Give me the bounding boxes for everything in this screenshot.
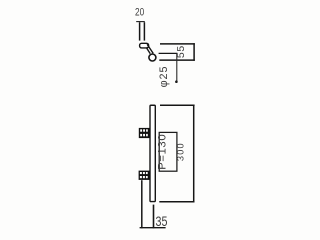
svg-text:35: 35 xyxy=(156,214,168,229)
P=130 box frame xyxy=(159,132,177,171)
ext line door face vertical xyxy=(141,180,143,228)
leg right line xyxy=(143,22,145,40)
svg-text:55: 55 xyxy=(176,45,187,58)
dim line 20 xyxy=(136,21,145,23)
svg-text:300: 300 xyxy=(176,142,186,161)
ext line bar top xyxy=(160,104,195,106)
svg-text:P=130: P=130 xyxy=(157,134,169,170)
ext line bar axis vertical xyxy=(153,205,155,229)
arm upper edge xyxy=(147,44,153,53)
svg-text:φ25: φ25 xyxy=(158,66,170,88)
base plate bar xyxy=(140,43,149,48)
dim end dot xyxy=(175,80,178,83)
handle bar front view xyxy=(150,105,155,201)
ext line bottom of grip xyxy=(159,59,195,61)
svg-text:20: 20 xyxy=(135,7,144,19)
dim line 55 vertical xyxy=(193,43,195,61)
grip circle (phi 25) xyxy=(149,54,156,61)
dim line phi25 vertical xyxy=(176,53,178,82)
arm lower edge xyxy=(146,48,150,54)
bracket 2 xyxy=(139,171,150,180)
ext line bar bottom xyxy=(159,201,194,203)
leg left line xyxy=(139,22,141,40)
dim line 300 vertical xyxy=(193,105,195,202)
ext line top of grip xyxy=(159,52,178,54)
bracket 1 xyxy=(139,128,150,138)
dim line 35 horizontal xyxy=(140,227,166,229)
ext line top (door face) xyxy=(160,43,195,45)
